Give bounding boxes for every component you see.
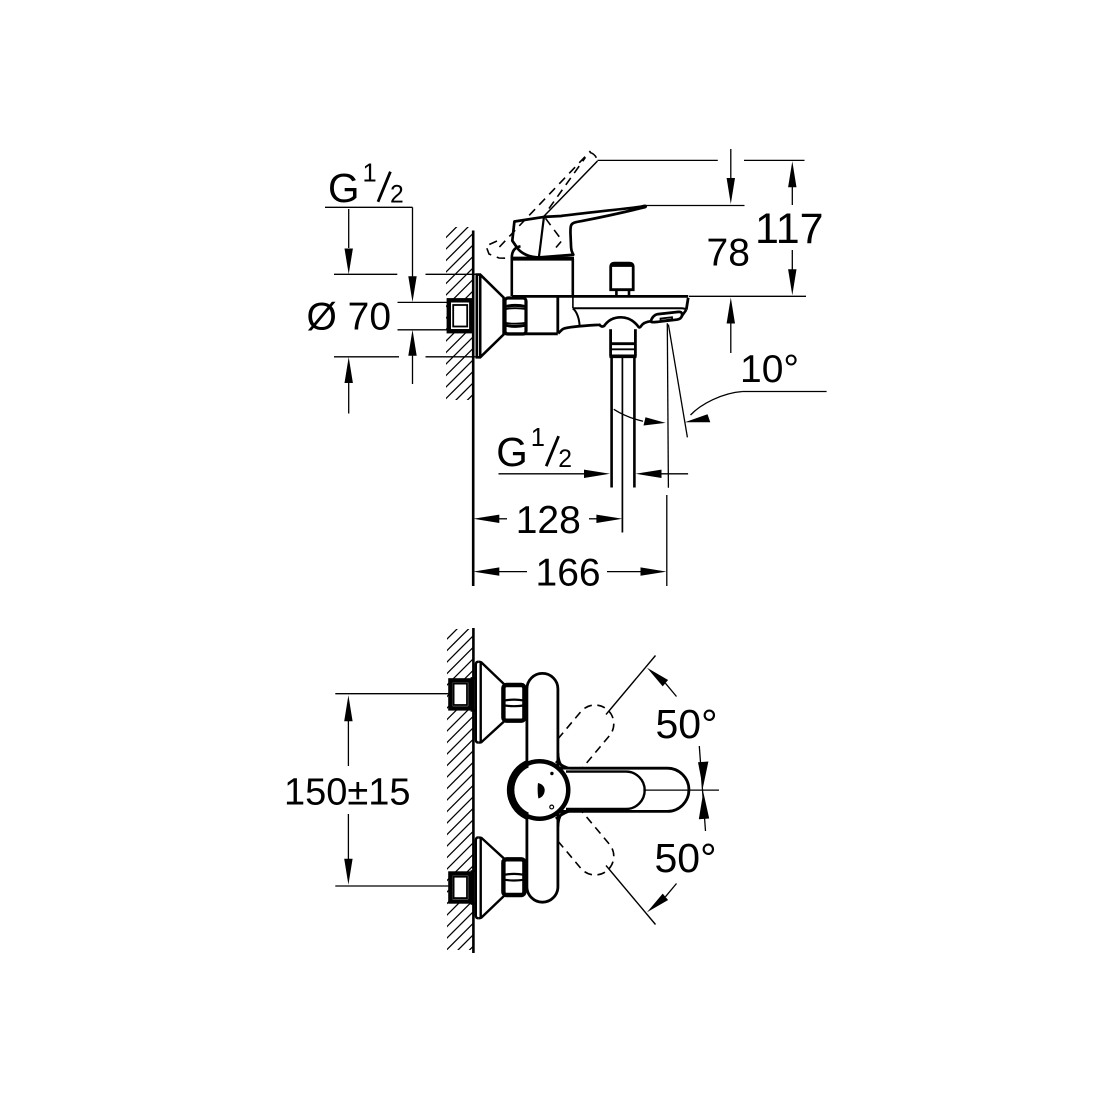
svg-text:1: 1 <box>531 424 545 452</box>
dimension 128 <box>473 515 622 523</box>
upper escutcheon cone (front) <box>476 662 504 743</box>
svg-text:1: 1 <box>363 160 377 188</box>
leader from solid lever tip to 78 dim <box>646 205 745 207</box>
central double arrow <box>698 746 709 831</box>
dimension G 1/2 (hose) <box>496 424 572 475</box>
dimension 117 <box>788 161 796 295</box>
lever inner contour <box>566 772 645 809</box>
spout underside with shower dome <box>558 317 651 333</box>
aerator reference lines (10°) <box>667 323 668 488</box>
50° reference line down <box>606 866 656 925</box>
svg-text:128: 128 <box>516 499 581 542</box>
upper S-union square <box>450 680 470 708</box>
hex nut (top view) <box>505 298 526 334</box>
svg-text:166: 166 <box>536 551 601 594</box>
spout right edge <box>686 298 688 310</box>
extension line from spout top <box>689 295 806 297</box>
svg-text:G: G <box>328 165 360 211</box>
dashed lever position +50 <box>541 697 622 783</box>
dimension Ø 70 <box>334 209 480 414</box>
dimension line G1/2 wall thread <box>408 207 416 384</box>
svg-text:Ø 70: Ø 70 <box>307 296 392 339</box>
extension lines from wall square <box>398 301 449 303</box>
svg-text:2: 2 <box>558 446 572 473</box>
svg-text:117: 117 <box>755 205 824 253</box>
comma mark in circle <box>538 783 545 799</box>
lever centerline <box>643 789 719 791</box>
wall line (top view) <box>472 231 475 587</box>
svg-text:78: 78 <box>707 231 750 274</box>
lever raised position (dashed) <box>486 151 597 258</box>
wall line (bottom view) <box>472 628 475 953</box>
dimension 150±15 <box>335 694 450 886</box>
upper hex nut (front) <box>503 685 524 721</box>
square wall fitting (top view) <box>449 300 472 331</box>
dimension 78 <box>727 149 735 353</box>
spout tip chamfer <box>682 310 687 317</box>
svg-text:G: G <box>496 429 528 475</box>
leader from raised lever tip to 117 dim <box>544 161 598 216</box>
svg-text:10°: 10° <box>740 348 799 391</box>
dashed lever position -50 <box>541 796 622 882</box>
lever handle (solid) <box>512 206 645 258</box>
lower S-union square <box>450 874 470 902</box>
svg-text:50°: 50° <box>656 701 718 747</box>
lever pill (front) <box>556 768 689 811</box>
extension line at aerator axis <box>666 495 668 586</box>
spout fillet arc at body <box>573 308 580 325</box>
lower hex nut (front) <box>503 859 524 895</box>
svg-text:150±15: 150±15 <box>284 772 411 814</box>
escutcheon cone (top view) <box>477 275 504 358</box>
body block between nut and cartridge <box>505 298 558 334</box>
lower escutcheon cone (front) <box>476 837 504 918</box>
spout top line <box>512 295 688 298</box>
wall hatching (bottom view) <box>441 595 479 978</box>
spout step line <box>573 308 686 310</box>
shower outlet nipple <box>610 329 637 356</box>
aerator <box>651 312 682 322</box>
cartridge circle (front) <box>511 761 569 819</box>
svg-text:2: 2 <box>390 182 404 209</box>
fillets capsule to lever <box>558 753 565 768</box>
50° dimension upper <box>647 668 668 687</box>
cartridge housing <box>511 246 575 296</box>
50° reference line up <box>606 656 656 715</box>
body capsule (front) <box>527 673 558 902</box>
label G 1/2 (top) <box>328 160 404 211</box>
dimension 166 <box>473 567 666 575</box>
wall hatching (top view) <box>440 193 479 439</box>
shower hose <box>612 357 635 533</box>
diverter knob <box>611 263 634 290</box>
leader line under G 1/2 <box>325 206 413 208</box>
svg-text:50°: 50° <box>655 835 717 881</box>
